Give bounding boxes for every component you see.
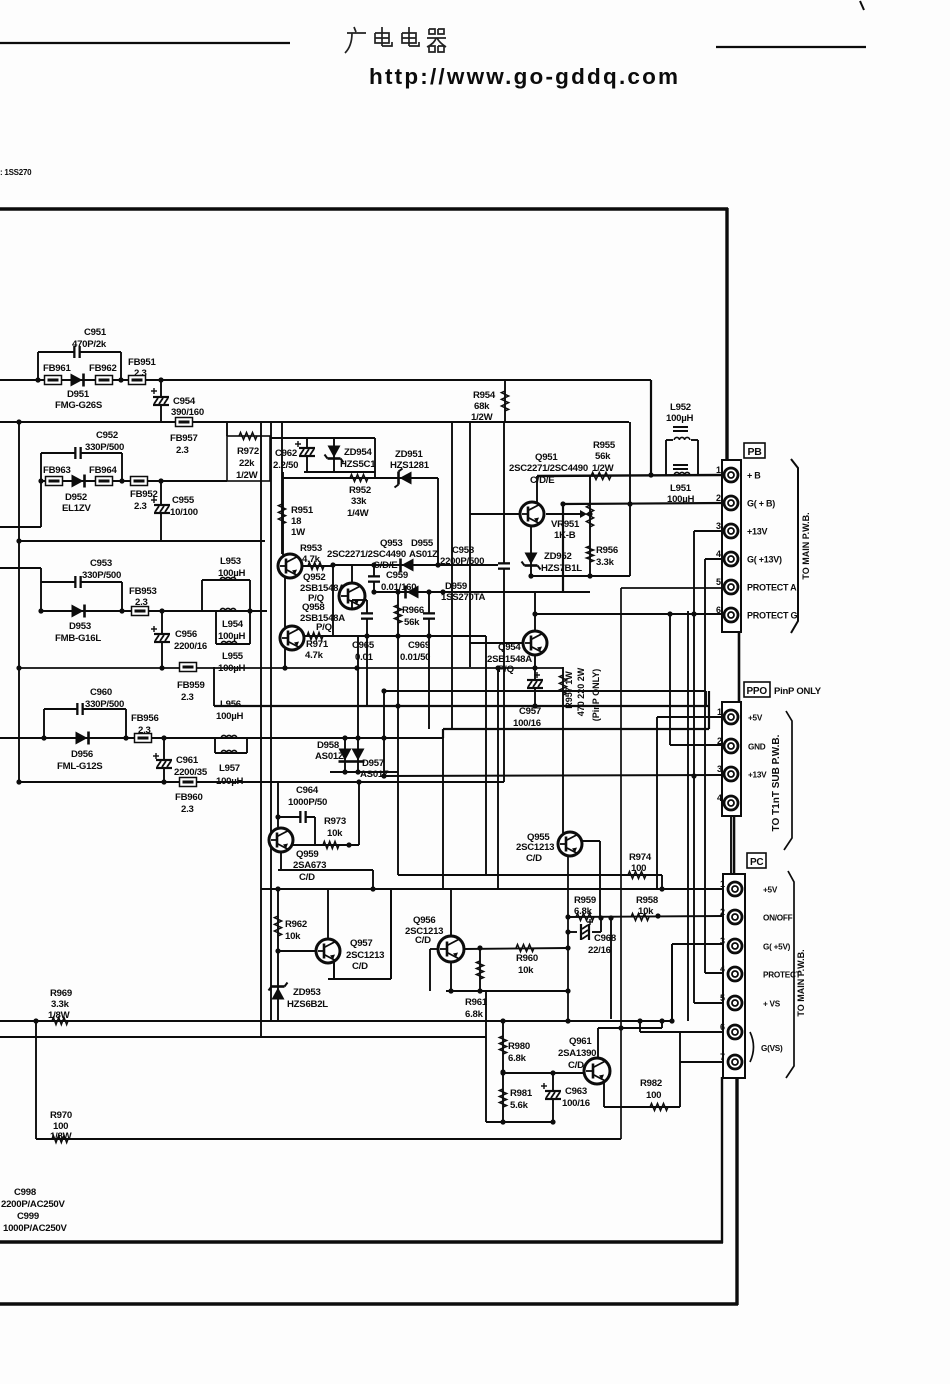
svg-text:C961: C961 (176, 755, 199, 766)
wire G(+5V) riser (672, 944, 722, 1021)
label R958 (636, 895, 659, 917)
inductor L953 (220, 577, 236, 580)
electrolytic capacitor C957 (527, 672, 543, 688)
svg-text:R970: R970 (50, 1110, 72, 1121)
label R959 (574, 895, 596, 917)
label R973 (324, 816, 346, 839)
svg-text:C969: C969 (408, 640, 430, 651)
node junction (477, 988, 482, 993)
wire C956 leg (161, 611, 163, 667)
svg-text:7: 7 (720, 1052, 725, 1062)
node junction (500, 1070, 505, 1075)
resistor VR951 (586, 505, 593, 527)
electrolytic capacitor C954 (151, 388, 169, 405)
wire bus 729 (443, 729, 709, 738)
main border top (0, 207, 728, 210)
transistor Q956 (438, 936, 464, 962)
svg-text:AS01Z: AS01Z (315, 751, 344, 762)
svg-text:3.3k: 3.3k (596, 557, 615, 568)
node junction (16, 665, 21, 670)
connector pin PC-5 (728, 996, 742, 1010)
L952 core marks (673, 426, 688, 428)
svg-text:C964: C964 (296, 785, 319, 796)
svg-text:G( +5V): G( +5V) (763, 943, 791, 952)
capacitor C969 (423, 613, 435, 618)
svg-text:+ VS: + VS (763, 1000, 781, 1009)
svg-text:R981: R981 (510, 1088, 533, 1099)
diode D951 (71, 374, 84, 387)
wire R970 rail (36, 1138, 621, 1140)
node junction (608, 915, 613, 920)
svg-text:: 1SS270: : 1SS270 (0, 168, 32, 177)
svg-text:R969: R969 (50, 988, 72, 999)
electrolytic capacitor C956 (151, 626, 170, 642)
label Q957 (346, 938, 384, 972)
inductor L951 (674, 472, 690, 475)
svg-text:68k: 68k (474, 401, 490, 412)
label D953 (55, 621, 101, 644)
wire Q956 emitter (450, 962, 452, 991)
label R962 (285, 919, 307, 942)
svg-text:Q958: Q958 (302, 602, 325, 613)
inductor L957 (221, 750, 237, 753)
wire R956 return (531, 504, 630, 576)
electrolytic capacitor C955 (151, 497, 170, 513)
label L955 (218, 651, 246, 674)
label C998 (1, 1187, 66, 1210)
resistor R973 (323, 841, 339, 848)
label C960 (85, 687, 124, 710)
svg-text:D953: D953 (69, 621, 91, 632)
resistor R982 (650, 1103, 668, 1110)
label ZD953 (287, 987, 328, 1010)
label R980 (508, 1041, 530, 1064)
svg-text:100µH: 100µH (667, 494, 695, 505)
node junction (161, 779, 166, 784)
svg-text:1/2W: 1/2W (471, 412, 494, 423)
node junction (158, 478, 163, 483)
node junction (426, 589, 431, 594)
svg-text:100: 100 (631, 863, 646, 874)
header rule right (716, 46, 866, 48)
node junction (659, 886, 664, 891)
svg-text:(PinP ONLY): (PinP ONLY) (591, 669, 601, 722)
ferrite bead FB962 (96, 376, 113, 385)
node junction (364, 633, 369, 638)
label FB961 (43, 363, 71, 374)
svg-text:C957: C957 (519, 706, 541, 717)
L952 loop box (666, 440, 698, 475)
label Q959 (293, 849, 326, 883)
svg-text:C953: C953 (90, 558, 112, 569)
svg-text:+ B: + B (747, 471, 761, 481)
wire C954 leg (160, 380, 162, 422)
resistor R962 (274, 916, 281, 936)
svg-text:C956: C956 (175, 629, 197, 640)
wire L955 loop (216, 611, 250, 644)
wire R980-R981 chain (502, 1021, 504, 1122)
svg-text:C/D: C/D (352, 961, 368, 972)
wire long vertical x261 (260, 422, 262, 1037)
label FB959 (177, 680, 205, 703)
resistor R954 (501, 391, 508, 411)
label C999 (3, 1211, 68, 1234)
electrolytic capacitor C961 (153, 753, 172, 768)
svg-text:1/2W: 1/2W (592, 463, 615, 474)
svg-text:2.2/50: 2.2/50 (273, 460, 298, 471)
wire R957 leg (562, 667, 564, 833)
svg-text:R952: R952 (349, 485, 371, 496)
node junction (119, 478, 124, 483)
svg-text:PROTECT G: PROTECT G (747, 611, 798, 621)
svg-text:470P/2k: 470P/2k (72, 339, 107, 350)
svg-text:GND: GND (748, 743, 766, 752)
svg-text:D952: D952 (65, 492, 87, 503)
svg-text:3: 3 (720, 936, 725, 946)
label Q955 (516, 832, 554, 864)
diode D956 (76, 732, 89, 745)
label L956 (216, 699, 244, 722)
svg-text:R956: R956 (596, 545, 618, 556)
wire ON/OFF sense riser (610, 919, 612, 1019)
resistor R955 (591, 472, 611, 479)
label R954 (471, 390, 496, 423)
node junction (395, 589, 400, 594)
connector PB box (722, 460, 741, 632)
label FB952 (130, 489, 158, 512)
capacitor C958 (498, 563, 510, 568)
node junction (426, 633, 431, 638)
connector pin PC-7 (728, 1055, 742, 1069)
wire R973 link (293, 781, 359, 845)
svg-text:18: 18 (291, 516, 302, 527)
label Q961 (558, 1036, 596, 1071)
label Q953 (327, 538, 406, 571)
wire base rail 1073 (503, 1072, 586, 1074)
wire +13V riser (694, 531, 722, 1003)
label R982 (640, 1078, 662, 1101)
svg-text:R954: R954 (473, 390, 496, 401)
wire left entry to C953 loop (0, 568, 41, 582)
svg-text:L953: L953 (220, 556, 241, 567)
wire Q956 collector (450, 889, 452, 936)
node junction (648, 472, 653, 477)
ferrite bead FB964 (96, 477, 113, 486)
label Q951 (509, 452, 588, 486)
svg-text:FML-G12S: FML-G12S (57, 761, 103, 772)
svg-text:TO MAIN P.W.B.: TO MAIN P.W.B. (801, 512, 811, 579)
ferrite bead FB960 (180, 778, 197, 787)
transistor Q961 (584, 1058, 610, 1084)
svg-text:L955: L955 (222, 651, 244, 662)
node junction (477, 945, 482, 950)
wire bus 706 (214, 691, 709, 729)
svg-text:FB963: FB963 (43, 465, 71, 476)
inductor L954 (220, 608, 236, 611)
wire D953 row (41, 610, 267, 612)
node junction (560, 501, 565, 506)
wire D955 rail (333, 564, 500, 566)
wire Q957 collector (327, 889, 329, 939)
node junction (118, 377, 123, 382)
label C952 (85, 430, 124, 453)
node junction (500, 1018, 505, 1023)
corner tick mark (860, 1, 864, 10)
label VR951 (551, 519, 580, 541)
wire R960 rail (464, 948, 568, 949)
svg-text:3: 3 (716, 521, 721, 531)
wire D952 block return (19, 540, 265, 542)
svg-text:D959: D959 (445, 581, 467, 592)
svg-text:Q961: Q961 (569, 1036, 592, 1047)
label R953 (300, 543, 322, 565)
wire C953 loop (41, 582, 122, 611)
svg-text:C/D: C/D (299, 872, 315, 883)
svg-text:390/160: 390/160 (171, 407, 204, 418)
svg-text:C952: C952 (96, 430, 118, 441)
wire bus 667 (19, 667, 563, 669)
capacitor C965 (361, 613, 373, 618)
wire Q955 emitter chain (567, 855, 569, 1021)
label R961 (465, 997, 488, 1020)
node junction (161, 735, 166, 740)
wire G(+B) rail (563, 503, 722, 592)
node junction (371, 562, 376, 567)
node junction (123, 735, 128, 740)
wire R974 rail (398, 875, 662, 889)
svg-text:C/D: C/D (568, 1060, 584, 1071)
label R955 (592, 440, 616, 474)
wire long vertical x470 (469, 422, 471, 667)
svg-text:10k: 10k (518, 965, 534, 976)
svg-text:R960: R960 (516, 953, 538, 964)
svg-text:R962: R962 (285, 919, 307, 930)
svg-text:HZS1281: HZS1281 (390, 460, 430, 471)
svg-text:C954: C954 (173, 396, 196, 407)
svg-text:10k: 10k (285, 931, 301, 942)
wire C960 loop (44, 709, 126, 738)
node junction (637, 1018, 642, 1023)
svg-text:VR951: VR951 (551, 519, 580, 530)
label D951 (55, 389, 103, 411)
wire C955 leg (160, 481, 162, 541)
node junction (159, 665, 164, 670)
wire R953 node drop (332, 565, 334, 636)
wire VR951 wiper (546, 513, 584, 515)
wire D952 row (41, 480, 227, 482)
svg-text:Q956: Q956 (413, 915, 435, 926)
connector pin PC-2 (728, 910, 742, 924)
node junction (691, 611, 696, 616)
label FB957 (170, 433, 198, 456)
VR951 wiper arrow (580, 510, 587, 518)
wire long vertical x399 (397, 772, 399, 875)
R972 box (227, 436, 270, 481)
svg-text:6.8k: 6.8k (465, 1009, 484, 1020)
svg-text:HZS7B1L: HZS7B1L (541, 563, 582, 574)
svg-text:2: 2 (720, 907, 725, 917)
svg-text:C/D: C/D (415, 935, 431, 946)
border segment between PPO and PC connectors (733, 815, 736, 875)
svg-text:1/8W: 1/8W (48, 1010, 71, 1021)
wire R953 link (302, 565, 333, 567)
diode D952 (72, 475, 85, 488)
wire FB959 branch (213, 667, 215, 706)
svg-text:100: 100 (646, 1090, 661, 1101)
node junction (565, 988, 570, 993)
label G(VS) with brace (750, 1032, 754, 1062)
svg-text:4: 4 (717, 793, 722, 803)
node junction (381, 773, 386, 778)
node junction (659, 1018, 664, 1023)
svg-text:http://www.go-gddq.com: http://www.go-gddq.com (369, 64, 680, 89)
svg-text:+13V: +13V (747, 527, 768, 537)
svg-text:5.6k: 5.6k (510, 1100, 529, 1111)
svg-text:FMB-G16L: FMB-G16L (55, 633, 101, 644)
svg-text:G( +13V): G( +13V) (747, 555, 782, 565)
node junction (16, 419, 21, 424)
wire Q954 base (470, 642, 523, 644)
wire Q953 emitter (351, 600, 353, 609)
resistor R974 (628, 871, 646, 878)
svg-text:2SA1390: 2SA1390 (558, 1048, 596, 1059)
label C956 (174, 629, 207, 652)
node junction (346, 842, 351, 847)
svg-text:PROTECT: PROTECT (763, 971, 801, 980)
label C964 (288, 785, 327, 808)
inductor L956 (221, 735, 237, 738)
svg-text:ZD954: ZD954 (344, 447, 372, 458)
svg-text:PinP ONLY: PinP ONLY (774, 686, 822, 697)
svg-text:C968: C968 (594, 933, 617, 944)
svg-text:100µH: 100µH (218, 568, 246, 579)
wire VR951 body (589, 476, 591, 576)
wire C965 leg (352, 600, 367, 706)
svg-text:1000P/AC250V: 1000P/AC250V (3, 1223, 68, 1234)
wire left entry to D952 row (0, 453, 41, 527)
svg-text:FMG-G26S: FMG-G26S (55, 400, 103, 411)
svg-text:R953: R953 (300, 543, 322, 554)
svg-text:1: 1 (717, 707, 722, 717)
node junction (395, 703, 400, 708)
svg-text:2.3: 2.3 (135, 597, 148, 608)
node junction (550, 1070, 555, 1075)
svg-text:100µH: 100µH (216, 711, 244, 722)
node junction (371, 589, 376, 594)
label D956 (57, 749, 103, 772)
wire bus 1122 (486, 1121, 555, 1123)
wire Q952-Q958 link (284, 578, 286, 627)
svg-text:1SS270TA: 1SS270TA (441, 592, 486, 603)
svg-text:Q957: Q957 (350, 938, 372, 949)
label C965 (352, 640, 375, 663)
resistor R966 (394, 605, 401, 623)
resistor R956 (586, 546, 593, 562)
svg-text:R951: R951 (291, 505, 314, 516)
connector pin PB-1 (724, 468, 738, 482)
wire Q961 collector (598, 1021, 662, 1058)
wire bus B2 drop to G(+B) (629, 422, 631, 504)
node junction (282, 665, 287, 670)
wire Q954 collector (534, 592, 536, 631)
resistor R969 (52, 1017, 68, 1024)
resistor R961 (476, 961, 483, 979)
zener diode ZD952 (522, 553, 541, 570)
svg-text:FB960: FB960 (175, 792, 203, 803)
node junction (691, 773, 696, 778)
svg-text:D955: D955 (411, 538, 434, 549)
node junction (598, 915, 603, 920)
resistor R957 (559, 675, 566, 695)
svg-text:C/D: C/D (526, 853, 542, 864)
transistor Q958 (280, 626, 304, 650)
svg-text:C962: C962 (275, 448, 297, 459)
svg-text:C960: C960 (90, 687, 112, 698)
svg-text:2.3: 2.3 (134, 501, 147, 512)
label C969 (400, 640, 430, 663)
wire PC pin6 wire (640, 1021, 722, 1032)
wire long vertical x271 (270, 422, 272, 1021)
node junction (354, 665, 359, 670)
label D958 (315, 740, 344, 762)
wire bus 1037 (0, 1036, 486, 1038)
wire bus B1 drop to +B (650, 380, 652, 476)
wire R970 drop (35, 1021, 37, 1139)
svg-text:C955: C955 (172, 495, 195, 506)
svg-text:2200/16: 2200/16 (174, 641, 207, 652)
node junction (35, 377, 40, 382)
border segment between PB and PPO connectors (738, 631, 741, 703)
svg-text:D957: D957 (362, 758, 384, 769)
svg-text:5: 5 (716, 577, 721, 587)
main border right (725, 208, 728, 462)
svg-text:ZD952: ZD952 (544, 551, 572, 562)
wire ZD952 leg (530, 526, 532, 576)
svg-text:6.8k: 6.8k (574, 906, 593, 917)
connector pin PC-4 (728, 967, 742, 981)
connector pin PB-5 (724, 580, 738, 594)
svg-text:FB959: FB959 (177, 680, 205, 691)
wire Q961 emitter (603, 1083, 605, 1107)
svg-text:G( + B): G( + B) (747, 499, 775, 509)
wire C961 leg (163, 738, 165, 782)
node junction (159, 608, 164, 613)
label ZD952 (541, 551, 582, 574)
zener diode ZD953 (269, 983, 288, 1000)
wire bus 691 (384, 691, 706, 706)
svg-text:1: 1 (716, 465, 721, 475)
wire PPO pin4 stub (730, 816, 732, 874)
wire long vertical x443 (442, 729, 444, 889)
label C958 (440, 545, 484, 567)
node junction (16, 538, 21, 543)
wire Q958 to bus (284, 649, 286, 668)
connector pin PPO-1 (724, 710, 738, 724)
svg-text:3: 3 (717, 764, 722, 774)
node junction (275, 814, 280, 819)
svg-text:FB957: FB957 (170, 433, 198, 444)
svg-text:Q952: Q952 (303, 572, 325, 583)
wire Q955 collector (581, 841, 600, 917)
wire left vertical rail x19 (18, 422, 20, 782)
inductor L955 (221, 641, 237, 644)
wire Q959 emitter return (278, 852, 373, 889)
transistor Q955 (558, 832, 582, 856)
connector pin PB-4 (724, 552, 738, 566)
label R951 (291, 505, 314, 538)
svg-text:P/Q: P/Q (316, 622, 333, 633)
resistor R951 (278, 504, 285, 524)
